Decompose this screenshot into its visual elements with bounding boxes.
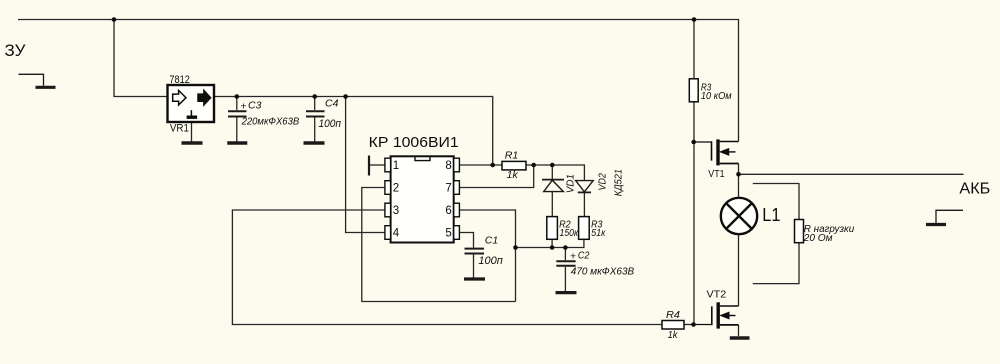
wire: VR1 input (114, 20, 168, 97)
wire: C2 stub (564, 248, 566, 261)
wire: AKB rail (739, 173, 964, 175)
node: VT2 gate (691, 322, 696, 327)
svg-text:1: 1 (393, 160, 399, 172)
capacitor C2 (556, 261, 575, 266)
ground (C4) (304, 141, 325, 144)
svg-text:470 мкФХ63В: 470 мкФХ63В (571, 266, 634, 278)
node: threshold / pin6 (513, 245, 518, 250)
svg-text:C1: C1 (485, 234, 498, 246)
svg-text:51к: 51к (591, 228, 606, 239)
wire: VD2 to R3 (583, 192, 585, 216)
wire: VD1 to R2 (551, 192, 553, 217)
wire: R4 to VT2 gate (684, 324, 694, 326)
svg-text:L1: L1 (762, 205, 780, 225)
svg-text:+: + (241, 100, 247, 112)
resistor R1 (502, 161, 526, 170)
svg-text:АКБ: АКБ (959, 180, 990, 197)
diode VD1 (542, 180, 564, 192)
svg-text:150к: 150к (560, 228, 580, 239)
wire: top rail (18, 20, 739, 142)
pin 8 (454, 158, 460, 172)
wire: VT1 source to AKB (738, 164, 740, 175)
svg-text:R1: R1 (505, 150, 519, 161)
wire: R2 bottom stub (551, 239, 553, 247)
wire: pin3 to bottom rail (232, 210, 662, 325)
wire: pin2 loop (362, 188, 516, 302)
wire: threshold node horizontal (516, 239, 584, 247)
ground (C3) (227, 141, 247, 144)
node: VR1 out / pin4 (343, 94, 348, 99)
svg-text:4: 4 (393, 228, 400, 240)
capacitor C3 (228, 111, 247, 116)
wire: C4 stub (314, 97, 316, 111)
wire: VD1 branch (551, 165, 553, 179)
node: VR1 out / C3 (235, 94, 240, 99)
wire: R3 bottom to gates (693, 102, 695, 325)
svg-text:7: 7 (445, 183, 451, 195)
wire: pin4 branch (346, 97, 385, 233)
node: VT1 source / AKB (736, 172, 741, 177)
pin 4 (385, 226, 391, 240)
wire: C1 stub (459, 233, 473, 248)
svg-text:8: 8 (445, 160, 451, 172)
wire: VT2 source to ground (738, 325, 740, 336)
svg-text:6: 6 (445, 205, 451, 217)
svg-text:3: 3 (393, 205, 399, 217)
resistor R2 (547, 217, 558, 240)
svg-text:10 кОм: 10 кОм (701, 91, 732, 102)
transistor VT1 (694, 139, 739, 165)
lamp L1 (721, 198, 757, 234)
svg-text:100п: 100п (478, 255, 502, 267)
svg-text:VT1: VT1 (708, 168, 724, 180)
terminal AKB (926, 210, 963, 224)
ground (VT2) (730, 336, 750, 339)
pin 2 (385, 181, 391, 195)
node: top rail / VR1 input (112, 17, 117, 22)
wire: C3 stub (236, 97, 238, 111)
svg-text:VD1: VD1 (565, 174, 576, 193)
pin 6 (454, 203, 460, 217)
svg-text:220мкФХ63В: 220мкФХ63В (241, 115, 300, 127)
resistor R3 51k (579, 217, 590, 240)
transistor VT2 (694, 302, 739, 328)
svg-text:КД521: КД521 (613, 169, 624, 196)
wire: VR1 ground pin (191, 122, 193, 142)
pin 7 (454, 181, 460, 195)
pin 1 (385, 158, 391, 172)
node: threshold / R2 (550, 245, 555, 250)
svg-text:7812: 7812 (169, 74, 190, 86)
svg-text:5: 5 (445, 228, 451, 240)
resistor R4 (662, 321, 684, 330)
node: R1 out / VD1 (550, 163, 555, 168)
svg-text:1k: 1k (668, 330, 679, 341)
resistor R load (795, 220, 804, 243)
pin 3 (385, 203, 391, 217)
svg-text:VT2: VT2 (707, 288, 727, 300)
wire: lamp top (738, 174, 740, 197)
resistor R3 10k (689, 79, 698, 102)
svg-text:КР 1006ВИ1: КР 1006ВИ1 (369, 134, 459, 151)
ground (C1) (464, 277, 485, 280)
node: VT1 gate (691, 140, 696, 145)
wire: load resistor loop (753, 184, 799, 220)
svg-text:C3: C3 (248, 99, 262, 111)
ground (VR1) (182, 141, 203, 144)
wire: pin8 to junction (459, 164, 502, 166)
svg-text:ЗУ: ЗУ (5, 41, 26, 60)
capacitor C4 (306, 111, 325, 116)
wire: R1 output node (526, 165, 584, 180)
node: pin8 / R1 (490, 163, 495, 168)
node: top rail / R3 (692, 17, 697, 22)
node: VR1 out / C4 (312, 94, 317, 99)
svg-text:100п: 100п (319, 118, 342, 130)
wire: pin7 branch (459, 165, 533, 188)
svg-text:2: 2 (393, 183, 399, 195)
wire: pin1 stub (369, 164, 385, 166)
diode VD2 (576, 181, 594, 193)
svg-text:+: + (570, 250, 576, 262)
svg-text:C4: C4 (325, 98, 339, 110)
node: R1 out / pin7 (531, 163, 536, 168)
voltage regulator VR1 (168, 85, 215, 122)
pin 5 (454, 226, 460, 240)
pin1 terminator bar (368, 156, 370, 176)
wire: R3 top branch (693, 20, 695, 79)
wire: VR1 output rail (214, 97, 493, 166)
node: threshold / C2 (563, 245, 568, 250)
svg-text:C2: C2 (578, 249, 590, 261)
wire: pin6 to threshold node (459, 210, 515, 302)
ground (C2) (556, 291, 577, 294)
capacitor C1 (465, 249, 485, 254)
svg-text:VR1: VR1 (170, 123, 189, 135)
svg-text:VD2: VD2 (598, 173, 609, 191)
wire: lamp bottom to VT2 drain (738, 234, 740, 306)
svg-text:20 Ом: 20 Ом (803, 233, 833, 244)
IC U1 KR1006VI1 body (391, 156, 454, 242)
svg-text:R4: R4 (666, 310, 680, 321)
svg-text:1k: 1k (507, 170, 519, 181)
terminal ZU (19, 74, 56, 87)
